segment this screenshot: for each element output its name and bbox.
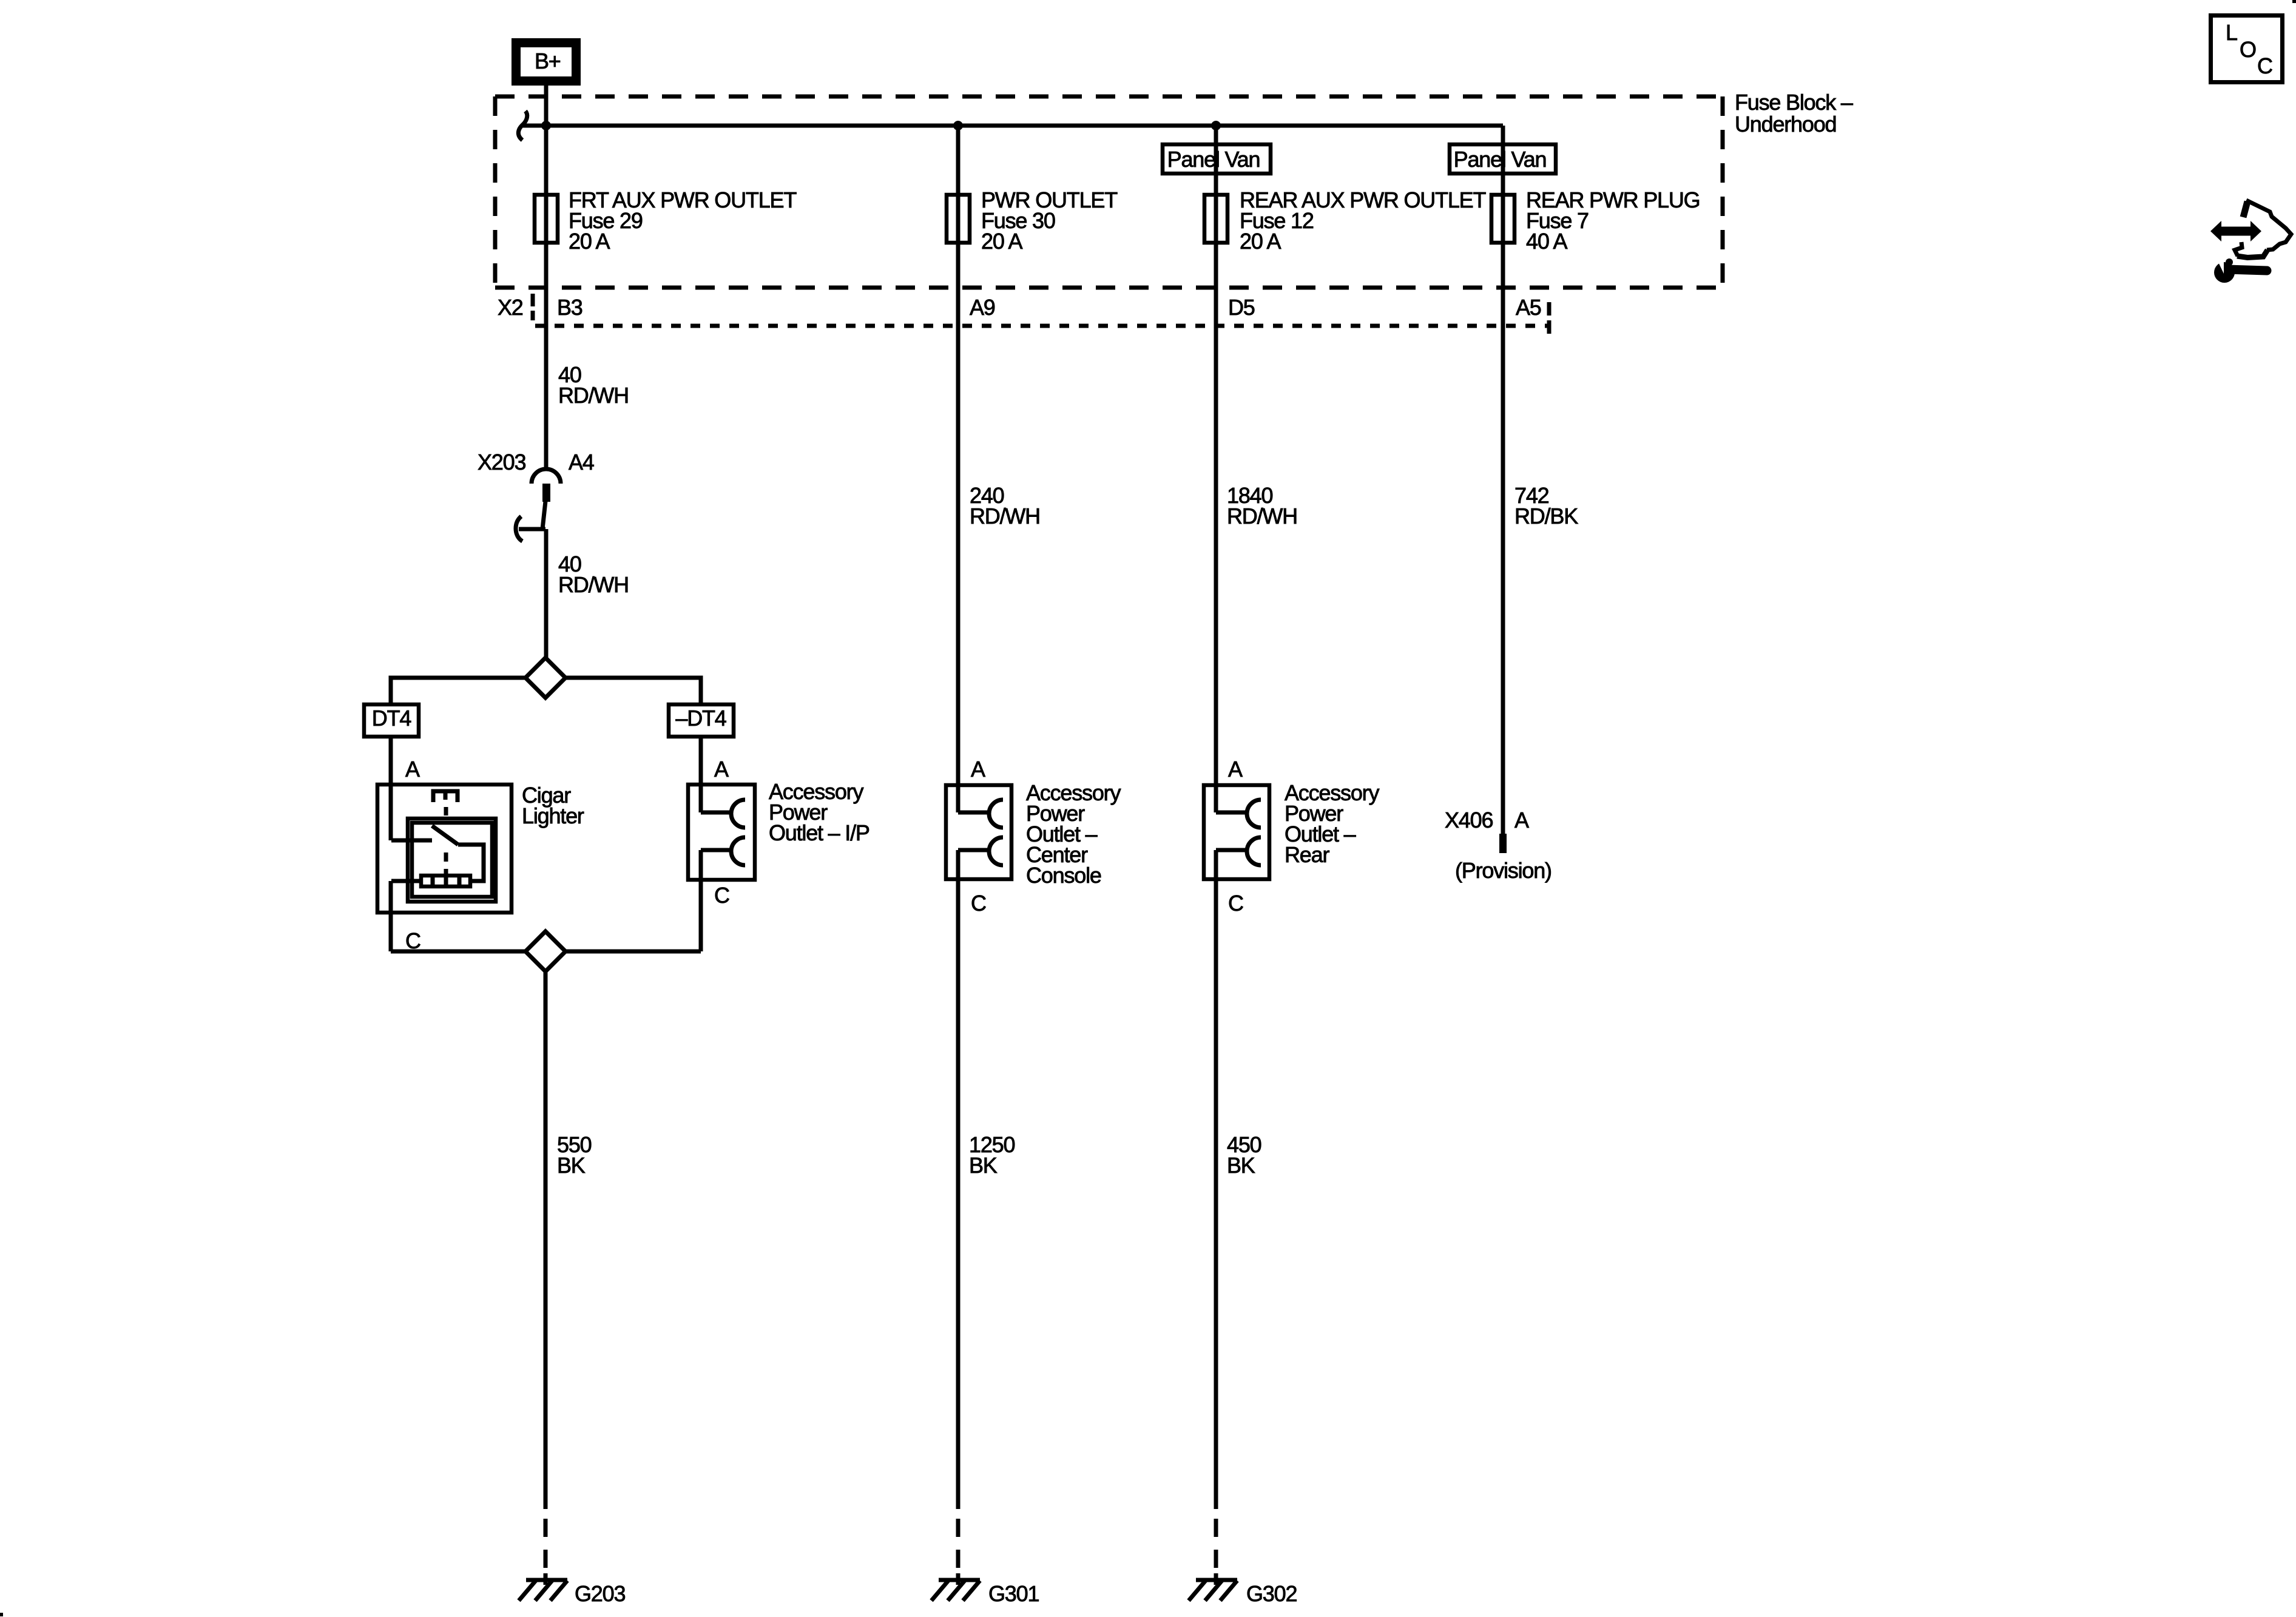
fuse block underhood dashed outline xyxy=(495,96,1723,288)
locator LOC box xyxy=(2211,16,2283,83)
wire to G301 xyxy=(956,881,961,1585)
wire splice to -DT4 branch xyxy=(566,678,701,703)
wire label 450 BK xyxy=(1227,1132,1261,1178)
option tag Panel Van (col3) xyxy=(1163,144,1271,174)
svg-text:20 A: 20 A xyxy=(981,229,1022,254)
svg-text:B3: B3 xyxy=(557,295,582,320)
connector X2 dotted interface xyxy=(533,294,1549,335)
svg-text:DT4: DT4 xyxy=(372,706,411,731)
svg-text:C: C xyxy=(2257,53,2272,78)
bus terminal clip at fuse block xyxy=(518,111,527,140)
fuse 7 REAR PWR PLUG 40A xyxy=(1491,187,1700,254)
wire to G302 xyxy=(1214,881,1218,1585)
svg-text:D5: D5 xyxy=(1228,295,1255,320)
svg-text:20 A: 20 A xyxy=(1240,229,1281,254)
wire DT4 to cigar lighter pin A xyxy=(389,738,393,840)
wire label 742 RD/BK xyxy=(1514,483,1578,528)
wire label 240 RD/WH xyxy=(970,483,1040,528)
wire B+ to bus xyxy=(544,86,549,126)
svg-text:40 A: 40 A xyxy=(1526,229,1567,254)
svg-text:Lighter: Lighter xyxy=(522,803,584,828)
cigar lighter xyxy=(377,783,584,913)
wire label 40 RD/WH upper xyxy=(558,362,629,408)
svg-text:20 A: 20 A xyxy=(569,229,610,254)
connector tag -DT4 xyxy=(669,704,734,737)
svg-text:B+: B+ xyxy=(535,49,561,73)
junction dot col2 xyxy=(953,121,963,130)
page corner mark bottom left xyxy=(0,1613,3,1616)
service icon double arrow xyxy=(2210,221,2261,241)
svg-text:A: A xyxy=(1514,808,1529,832)
wire col2 fuse feed xyxy=(956,126,961,783)
svg-text:BK: BK xyxy=(557,1153,586,1178)
svg-text:A5: A5 xyxy=(1516,295,1541,320)
connector tag DT4 xyxy=(364,704,419,737)
svg-text:Outlet – I/P: Outlet – I/P xyxy=(769,820,869,845)
svg-text:–DT4: –DT4 xyxy=(675,706,726,731)
page corner mark top right xyxy=(2292,0,2296,3)
in-line connector X203 pin A4 xyxy=(478,450,594,541)
svg-text:BK: BK xyxy=(1227,1153,1255,1178)
service icon wrench xyxy=(2214,258,2267,283)
svg-text:RD/WH: RD/WH xyxy=(1227,504,1297,528)
svg-text:G301: G301 xyxy=(988,1581,1039,1606)
svg-text:Rear: Rear xyxy=(1285,842,1329,867)
ground G302 xyxy=(1189,1580,1297,1606)
accessory power outlet I/P xyxy=(688,779,869,882)
fuse 30 PWR OUTLET 20A xyxy=(947,187,1118,254)
junction dot col1 xyxy=(541,121,551,130)
svg-text:RD/BK: RD/BK xyxy=(1514,504,1578,528)
splice diamond upper xyxy=(525,658,566,698)
svg-text:A: A xyxy=(714,757,729,781)
ground G301 xyxy=(931,1580,1039,1606)
wire label 550 BK xyxy=(557,1132,592,1178)
wire label 40 RD/WH lower xyxy=(558,552,629,597)
label Fuse Block - Underhood xyxy=(1735,90,1853,137)
svg-text:C: C xyxy=(714,883,729,908)
wire -DT4 to outlet pin A xyxy=(699,738,703,812)
wire label 1840 RD/WH xyxy=(1227,483,1297,528)
svg-text:O: O xyxy=(2240,37,2256,62)
svg-text:Fuse Block –: Fuse Block – xyxy=(1735,90,1853,115)
option tag Panel Van (col4) xyxy=(1450,144,1556,174)
fuse 29 FRT AUX PWR OUTLET 20A xyxy=(535,187,797,254)
svg-text:C: C xyxy=(971,891,986,916)
svg-text:X406: X406 xyxy=(1445,808,1493,832)
wire col4 fuse feed xyxy=(1501,126,1505,834)
svg-text:A: A xyxy=(405,757,420,781)
svg-text:G203: G203 xyxy=(575,1581,625,1606)
svg-text:(Provision): (Provision) xyxy=(1455,858,1551,883)
svg-text:BK: BK xyxy=(969,1153,998,1178)
svg-text:Underhood: Underhood xyxy=(1735,112,1836,137)
wire cigar lighter pin C xyxy=(389,881,393,951)
wire col1 fuse feed xyxy=(544,126,549,468)
svg-text:A4: A4 xyxy=(569,450,594,474)
junction dot col3 xyxy=(1211,121,1221,130)
svg-text:X203: X203 xyxy=(478,450,525,474)
svg-text:A: A xyxy=(1228,757,1243,781)
power bus wire inside fuse block xyxy=(522,124,1503,128)
wire X203 to splice xyxy=(544,529,549,658)
svg-text:L: L xyxy=(2226,20,2237,45)
svg-text:Panel Van: Panel Van xyxy=(1167,147,1260,172)
connector X406 pin A provision xyxy=(1445,808,1551,883)
wire outlet I/P pin C xyxy=(699,882,703,951)
service icon component outline xyxy=(2235,200,2291,258)
fuse 12 REAR AUX PWR OUTLET 20A xyxy=(1204,187,1486,254)
ground G203 xyxy=(519,1580,625,1606)
svg-text:A: A xyxy=(971,757,985,781)
wire splice to DT4 branch xyxy=(391,678,525,703)
accessory power outlet center console xyxy=(946,780,1121,888)
svg-text:RD/WH: RD/WH xyxy=(558,572,629,597)
svg-text:C: C xyxy=(1228,891,1243,916)
splice diamond lower xyxy=(391,931,701,971)
svg-text:G302: G302 xyxy=(1246,1581,1297,1606)
svg-text:X2: X2 xyxy=(498,295,523,320)
svg-text:A9: A9 xyxy=(970,295,995,320)
svg-text:RD/WH: RD/WH xyxy=(970,504,1040,528)
wire col3 fuse feed xyxy=(1214,126,1218,783)
svg-text:Panel Van: Panel Van xyxy=(1454,147,1547,172)
wire label 1250 BK xyxy=(969,1132,1015,1178)
accessory power outlet rear xyxy=(1204,780,1379,881)
wire to G203 xyxy=(544,971,548,1585)
battery positive B+ symbol xyxy=(516,43,576,81)
svg-text:Console: Console xyxy=(1026,863,1101,888)
svg-text:RD/WH: RD/WH xyxy=(558,383,629,408)
